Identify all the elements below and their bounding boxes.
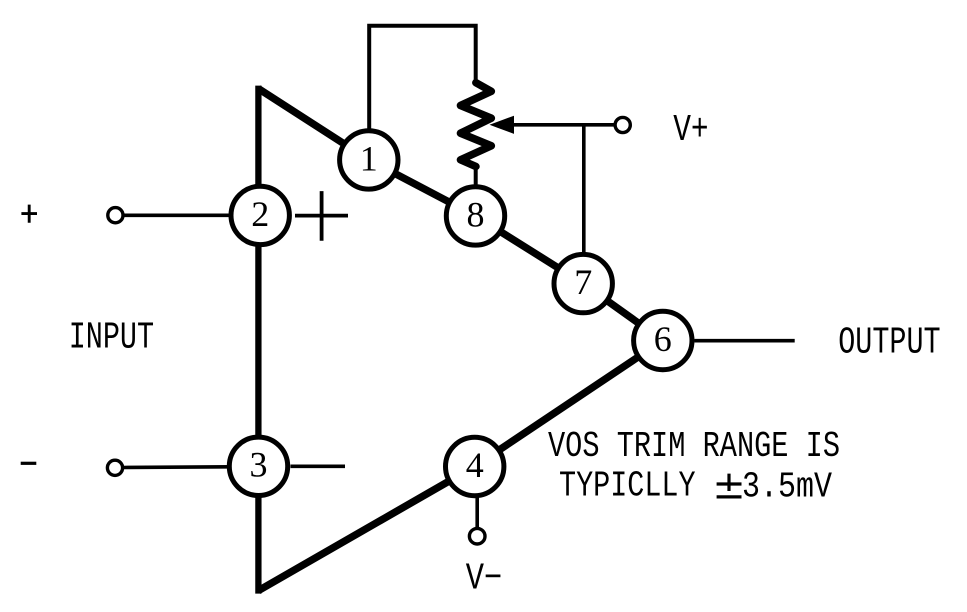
wire: + input to pin 2 [124,214,233,218]
wire: pin 4 stub down to V- terminal [475,495,479,528]
wire: loop from pin 1 up and over to resistor top [369,26,476,132]
svg-text:4: 4 [466,445,484,485]
pin 2 [231,186,289,244]
wire: triangle left vertical edge [255,86,261,594]
svg-text:V+: V+ [673,109,708,152]
plus-minus symbol [717,474,742,497]
svg-text:2: 2 [251,194,269,234]
pin 1 [340,131,398,189]
wire: junction down to pin 7 [582,125,586,255]
pin 3 [229,437,287,495]
wire: triangle bottom edge through pin 4 to pin 6 [258,341,663,591]
wire: - input to pin 3 [123,465,230,469]
svg-text:VOS TRIM RANGE IS: VOS TRIM RANGE IS [548,426,840,467]
terminal circle noninverting input [108,208,123,223]
svg-text:6: 6 [654,319,672,359]
terminal circle inverting input [107,460,122,475]
svg-text:1: 1 [360,138,378,178]
op-amp U1 triangle body [258,86,663,594]
wire: output from pin 6 [694,339,794,343]
plus cross marking at pin 2 [295,191,348,241]
pin 7 [554,254,612,312]
svg-text:V−: V− [466,558,503,601]
svg-text:OUTPUT: OUTPUT [838,321,940,364]
svg-text:3.5mV: 3.5mV [742,466,832,507]
label - (input polarity) [21,462,37,465]
svg-text:INPUT: INPUT [69,317,154,360]
minus stub marking at pin 3 [291,464,346,468]
terminal circle V+ [615,117,630,132]
svg-text:TYPICLLY: TYPICLLY [559,465,696,506]
svg-text:3: 3 [250,445,268,485]
svg-text:7: 7 [574,262,592,302]
pin 4 [446,437,504,495]
wire: resistor bottom lead to pin 8 [474,164,478,188]
pin 6 [634,311,692,369]
wiper arrow into resistor [490,116,515,134]
wire: triangle top edge through pins 1,8,7 to pin 6 [258,89,662,341]
terminal circle V- [469,528,485,544]
resistor R1 (trim potentiometer zigzag) [461,83,492,167]
pin 8 [446,187,504,245]
label + (input polarity) [21,205,37,223]
wire: V+ horizontal to terminal [512,123,615,127]
svg-text:8: 8 [467,194,485,234]
